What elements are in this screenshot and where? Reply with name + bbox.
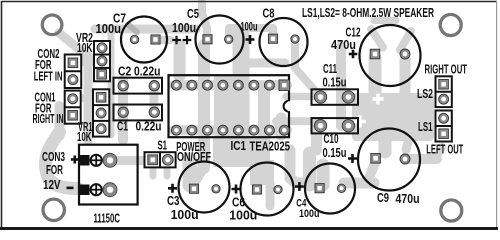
wire LS1 nub [437, 147, 442, 156]
wire CON2 stub [80, 58, 95, 66]
copper pour below IC [213, 137, 259, 167]
svg-text:100u: 100u [172, 21, 196, 35]
svg-text:TEA2025: TEA2025 [250, 140, 291, 154]
svg-text:100u: 100u [241, 22, 258, 34]
capacitor C12 [360, 25, 421, 86]
plus C9 [348, 154, 357, 163]
svg-text:C10: C10 [324, 132, 339, 146]
wire RIGHT IN vertical [55, 106, 65, 136]
wire C12 left V [371, 29, 383, 48]
svg-text:LEFT OUT: LEFT OUT [426, 143, 463, 157]
capacitor C5 [196, 16, 244, 64]
wire into C3 [183, 160, 198, 185]
wire left of C2 vertical [108, 30, 115, 135]
svg-text:IC1: IC1 [231, 139, 247, 153]
capacitor C1 [114, 105, 163, 121]
wire over C12 top [374, 17, 396, 24]
IC1 pads bottom row [171, 125, 289, 135]
wire C2-C1 right pads [150, 92, 159, 106]
wire C12 right strip down [400, 60, 411, 94]
svg-text:LS2: LS2 [417, 87, 433, 101]
wire CON1 stub [80, 94, 95, 102]
capacitor C2 [114, 78, 163, 94]
copper pour right blob [352, 93, 434, 141]
svg-text:C8: C8 [263, 7, 275, 21]
svg-text:C6: C6 [232, 196, 245, 210]
plus CON3 [71, 156, 79, 164]
white plus cutout in pour 2 [373, 94, 384, 105]
svg-text:LEFT IN: LEFT IN [34, 69, 63, 83]
svg-text:CON3: CON3 [42, 150, 65, 164]
wire IC top pad row band [174, 80, 287, 90]
svg-text:LS1: LS1 [418, 120, 433, 134]
copper traces [46, 2, 442, 206]
capacitor C4 [305, 164, 355, 214]
wire CON3 to S1 [117, 156, 146, 165]
wire left vertical [84, 56, 93, 141]
wire top band through C7 [95, 25, 196, 34]
wire S1 stub right [164, 167, 171, 176]
wire C9 left strip [379, 132, 392, 152]
minus CON3 [67, 187, 74, 190]
connector CON2 [65, 55, 82, 89]
wire C6-C4 link [290, 150, 306, 183]
wire dark diagonal in C7 [128, 25, 137, 33]
wire C9 right strip [406, 130, 411, 150]
wire C4-C9 bottom band [344, 178, 374, 189]
capacitor C8 [260, 18, 308, 66]
plus C3 [168, 184, 177, 193]
plus C4 [295, 182, 304, 191]
svg-text:100u: 100u [171, 208, 199, 222]
wire under C8 [250, 59, 285, 68]
svg-text:100u: 100u [229, 209, 257, 223]
plus C7 [172, 36, 181, 45]
wire C11-C10 vertical [336, 46, 346, 126]
wire into C4 left column [303, 153, 316, 185]
svg-text:RIGHT IN: RIGHT IN [33, 112, 64, 126]
mounting hole bottom-right [441, 200, 462, 221]
wire IC pin to C10 [276, 117, 316, 125]
wire ON/OFF to C3 [196, 165, 205, 180]
potentiometer VR1 pads [93, 89, 109, 136]
wire between C7 C5 down [174, 45, 186, 76]
wire IC feed above [233, 33, 250, 78]
wire C12 right V [400, 31, 411, 50]
wire top-left diagonal [59, 33, 90, 58]
svg-text:C9: C9 [377, 191, 389, 205]
svg-text:10K: 10K [77, 130, 92, 144]
capacitor C11 [312, 89, 359, 105]
svg-text:ON/OFF: ON/OFF [177, 150, 211, 164]
wire C5-C8 band [229, 28, 273, 39]
connector CON3 [79, 145, 138, 205]
svg-text:12V: 12V [43, 178, 61, 192]
svg-text:100u: 100u [299, 208, 320, 220]
svg-text:100u: 100u [96, 22, 122, 36]
svg-text:C3: C3 [167, 194, 180, 208]
wire into C4 right column [317, 165, 330, 185]
plus C8 [246, 35, 255, 44]
svg-text:10K: 10K [77, 41, 93, 55]
svg-text:C1: C1 [117, 120, 128, 134]
white plus cutout in pour 1 [354, 94, 384, 128]
polarity plus marks [67, 35, 358, 194]
switch S1 [145, 152, 176, 167]
wire C2-C1 left pads [118, 80, 128, 140]
capacitor C7 [121, 17, 167, 63]
svg-text:FOR: FOR [46, 163, 63, 177]
svg-text:LS1,LS2= 8-OHM.2.5W SPEAKER: LS1,LS2= 8-OHM.2.5W SPEAKER [302, 6, 434, 20]
svg-text:470u: 470u [396, 192, 420, 206]
svg-text:0.22u: 0.22u [136, 120, 162, 134]
IC1 pads top row [171, 80, 289, 91]
svg-text:0.15u: 0.15u [323, 76, 347, 90]
capacitor C9 [358, 129, 420, 191]
svg-text:11150C: 11150C [94, 212, 121, 226]
capacitor C3 [179, 162, 230, 213]
copper pour IC central column [214, 76, 250, 137]
wire IC third band [258, 88, 270, 162]
mounting hole bottom-left [43, 199, 64, 220]
svg-text:C2 0.22u: C2 0.22u [118, 65, 160, 79]
potentiometer VR2 pads [94, 41, 110, 81]
connector CON1 [65, 91, 81, 124]
svg-text:RIGHT OUT: RIGHT OUT [425, 63, 468, 77]
plus C6 [232, 185, 241, 194]
connector LS2 pads [436, 76, 452, 107]
plus C5 [183, 36, 192, 45]
wire IC bottom pad row band [174, 125, 287, 135]
svg-text:C11: C11 [323, 62, 337, 76]
wire C5 to IC [198, 45, 210, 168]
wire IC pin10 down [276, 118, 287, 135]
wire C10 pad down [311, 128, 322, 150]
wire C9 to LS1 [406, 154, 437, 164]
wire S1 stub left [150, 167, 157, 176]
wire C5 feed from top [202, 2, 207, 40]
wire into C6 wide [250, 160, 274, 185]
svg-text:C5: C5 [187, 7, 199, 21]
capacitor C10 [312, 118, 359, 133]
wire C6 lower [266, 184, 275, 206]
wire IC pin to C11 [286, 93, 316, 101]
wire C7 pad stub [160, 36, 170, 44]
wire into C9 bottom [368, 163, 375, 180]
wire C12 left strip down [369, 58, 382, 94]
mounting hole top-right [440, 15, 461, 36]
op-amp U1 IC1 TEA2025 body [169, 75, 290, 137]
connector LS1 pads [436, 111, 452, 142]
mounting hole top-left [42, 15, 62, 35]
plus C12 [349, 50, 358, 59]
wire CON3 diagonal [46, 132, 78, 189]
svg-text:S1: S1 [158, 139, 168, 153]
wire C8 to C11 diagonal [295, 40, 318, 94]
svg-text:0.15u: 0.15u [323, 146, 347, 160]
capacitor C6 [241, 163, 294, 216]
